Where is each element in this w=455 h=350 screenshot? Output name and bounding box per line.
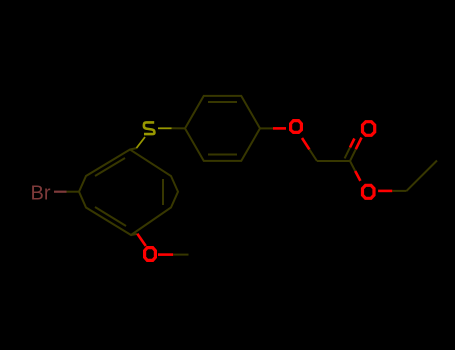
carbonyl C=O double bond oxygen halves xyxy=(350,138,362,150)
atom label O (ester) xyxy=(363,185,375,198)
right benzene ring carbon skeleton xyxy=(185,96,260,161)
left benzene ring (bromo-methoxy-phenyl) carbon skeleton xyxy=(79,150,178,236)
wire: CH2-C(=O) bond xyxy=(317,160,350,162)
wire: S-ring bond sulfur half xyxy=(137,137,146,148)
wire: ester O-CH2 bond carbon half xyxy=(392,190,406,192)
wire: S-aryl bond sulfur half xyxy=(158,127,172,129)
wire: ester O-CH2 bond oxygen half xyxy=(378,190,392,193)
carbonyl C=O double bond carbon halves xyxy=(345,147,356,161)
atom label O (phenoxy) xyxy=(291,121,302,133)
wire: S-aryl bond carbon half xyxy=(172,127,186,129)
wire: ethyl CH2-CH3 bond xyxy=(407,161,438,191)
wire: Br bond bromine half xyxy=(54,191,67,193)
wire: Br bond carbon half xyxy=(67,191,80,193)
wire: methoxy O-CH3 bond oxygen half xyxy=(158,253,173,256)
wire: S-ring bond carbon half xyxy=(130,148,137,150)
wire: methoxy O-ring bond oxygen half xyxy=(137,234,146,246)
atom label S xyxy=(144,122,155,134)
wire: phenoxy O-CH2 bond carbon half xyxy=(309,149,317,161)
wire: methoxy O-ring bond carbon half xyxy=(131,234,137,235)
wire: phenoxy O-ring bond carbon half xyxy=(260,127,273,129)
svg-text:Br: Br xyxy=(31,183,51,205)
wire: C-O ester bond oxygen half xyxy=(355,171,360,181)
atom label O (methoxy) xyxy=(145,248,156,261)
wire: C-O ester bond carbon half xyxy=(350,161,355,171)
wire: methoxy O-CH3 bond carbon half xyxy=(173,254,188,256)
wire: phenoxy O-ring bond oxygen half xyxy=(273,127,286,130)
atom label O (carbonyl) xyxy=(363,122,375,136)
wire: phenoxy O-CH2 bond oxygen half xyxy=(302,138,309,149)
